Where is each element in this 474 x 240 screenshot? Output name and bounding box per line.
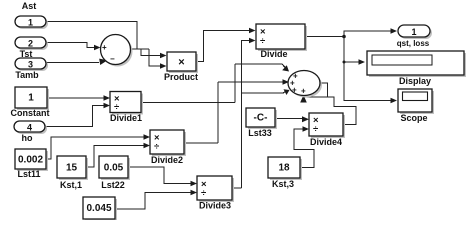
arrowhead into Divide2 x xyxy=(144,134,151,140)
svg-text:Divide4: Divide4 xyxy=(310,137,342,147)
svg-text:+: + xyxy=(301,87,306,96)
wire Lst33 to Divide4 x input xyxy=(275,118,303,120)
svg-text:-C-: -C- xyxy=(254,113,268,124)
arrowhead into Divide divide xyxy=(249,38,256,44)
constant Lst22 0.05 xyxy=(99,156,130,190)
divide3 block xyxy=(197,176,234,211)
wire Lst11 to Divide2 x input xyxy=(46,137,144,159)
svg-text:15: 15 xyxy=(66,163,78,174)
wire riser x218 xyxy=(217,82,219,143)
svg-text:÷: ÷ xyxy=(313,124,318,135)
arrowhead into sum1 minus xyxy=(99,59,107,65)
divide1 block xyxy=(110,92,143,124)
wire down to display and scope xyxy=(344,37,391,101)
constant Kst,3 18 xyxy=(268,157,302,189)
wire ho to Divide1 divide input xyxy=(45,106,104,127)
svg-text:2: 2 xyxy=(28,39,33,49)
arrowhead into sum2 left xyxy=(283,79,290,85)
svg-text:Kst,1: Kst,1 xyxy=(60,180,82,190)
svg-text:Divide3: Divide3 xyxy=(199,201,231,211)
arrowhead into Divide1 x xyxy=(104,95,111,101)
svg-text:18: 18 xyxy=(278,163,290,174)
wire Kst3 to Divide4 divide input xyxy=(294,129,314,168)
svg-text:Divide1: Divide1 xyxy=(110,113,142,123)
wire Tst from inport2 into sum plus input xyxy=(46,43,96,48)
svg-text:qst, loss: qst, loss xyxy=(397,39,430,48)
svg-text:1: 1 xyxy=(28,18,33,28)
constant Lst11 0.002 xyxy=(15,149,48,179)
constant Lst33 -C- xyxy=(246,108,277,138)
svg-text:−: − xyxy=(110,55,115,64)
svg-text:+: + xyxy=(102,43,107,52)
wire into sum2 top-left input xyxy=(235,64,287,70)
arrowhead into Display xyxy=(359,59,366,65)
wire branch to Product input 2 xyxy=(149,49,160,66)
svg-text:Product: Product xyxy=(164,72,198,82)
svg-text:÷: ÷ xyxy=(154,142,159,153)
arrowhead into Product input1 xyxy=(160,53,167,59)
sum block circle xyxy=(101,35,133,67)
svg-text:×: × xyxy=(178,57,184,69)
arrowhead into sum2 lower-left xyxy=(284,89,290,95)
wire Constant1 to Divide1 x input xyxy=(47,97,104,99)
scope block xyxy=(398,89,434,123)
svg-text:1: 1 xyxy=(411,27,416,37)
wire riser x235 xyxy=(234,64,236,103)
arrowhead into Product input2 xyxy=(160,63,167,69)
arrowhead into outport xyxy=(391,28,398,34)
wire branch to Product input 1 xyxy=(141,49,160,56)
outport 1 qst loss xyxy=(397,25,432,48)
constant 0.045 xyxy=(83,197,117,221)
wire 0.045 to Divide3 divide input xyxy=(115,193,191,210)
wire Product output up to Divide x input xyxy=(196,31,249,62)
constant Kst,1 15 xyxy=(57,156,88,190)
svg-text:+: + xyxy=(292,86,297,95)
svg-text:Display: Display xyxy=(399,76,431,86)
wire Divide2 output xyxy=(184,142,218,144)
wire Divide1 output xyxy=(141,102,235,104)
arrowhead into Divide3 x xyxy=(191,181,198,187)
svg-text:Ast: Ast xyxy=(22,1,37,11)
wire Divide output xyxy=(305,36,344,38)
svg-text:Lst22: Lst22 xyxy=(101,180,125,190)
svg-text:Divide2: Divide2 xyxy=(151,155,183,165)
arrowhead into Divide4 divide xyxy=(303,126,310,132)
svg-text:Lst11: Lst11 xyxy=(17,169,40,179)
wire into sum2 lower-left input xyxy=(242,91,288,94)
arrowhead into Scope xyxy=(391,98,398,104)
svg-text:Tamb: Tamb xyxy=(15,70,39,80)
product block xyxy=(164,52,198,82)
svg-text:3: 3 xyxy=(28,60,33,70)
arrowhead into Divide2 divide xyxy=(144,143,151,149)
arrowhead into sum1 plus xyxy=(94,45,101,51)
svg-text:Kst,3: Kst,3 xyxy=(272,179,294,189)
wire Ast from inport1 down to sum output line xyxy=(46,22,137,50)
svg-text:0.045: 0.045 xyxy=(86,203,111,214)
junction dot at divide output branch xyxy=(342,35,346,39)
svg-text:0.05: 0.05 xyxy=(104,163,124,174)
arrowhead into sum2 top-left xyxy=(282,65,289,71)
svg-text:÷: ÷ xyxy=(201,188,206,199)
svg-text:Divide: Divide xyxy=(260,49,287,59)
inport 3 Tamb xyxy=(15,58,48,80)
svg-text:Constant: Constant xyxy=(11,108,50,118)
inport 4 ho xyxy=(14,121,47,143)
inport 1 Ast xyxy=(15,1,48,29)
wire Lst22 to Divide3 x input xyxy=(128,167,191,184)
svg-text:ho: ho xyxy=(22,133,33,143)
display block xyxy=(367,51,466,86)
wire sum1 output xyxy=(131,48,150,50)
constant 1 block xyxy=(11,87,50,118)
inport 2 Tst xyxy=(15,37,48,59)
svg-text:0.002: 0.002 xyxy=(18,155,43,166)
svg-text:Scope: Scope xyxy=(400,113,427,123)
wire Kst1 to Divide2 divide input xyxy=(86,146,144,168)
svg-text:÷: ÷ xyxy=(114,102,119,113)
svg-text:4: 4 xyxy=(27,123,32,133)
wire into sum2 left input xyxy=(218,81,284,83)
divide block xyxy=(256,24,307,59)
svg-text:1: 1 xyxy=(28,93,34,104)
sum2 ellipse add block xyxy=(288,71,322,98)
divide4 block xyxy=(309,113,345,147)
wire up to outport qst loss xyxy=(344,31,391,37)
wire sum2 right loop xyxy=(320,83,328,97)
wire riser to Divide divide input xyxy=(242,41,250,189)
svg-text:÷: ÷ xyxy=(260,36,265,47)
svg-text:Lst33: Lst33 xyxy=(248,128,272,138)
wire Tamb from inport3 into sum minus input xyxy=(46,62,99,64)
arrowhead into Divide1 divide xyxy=(104,103,111,109)
junction dot at display branch xyxy=(343,61,346,64)
arrowhead into Divide3 divide xyxy=(191,190,198,196)
divide2 block xyxy=(150,130,186,165)
arrowhead into Divide x xyxy=(249,28,256,34)
arrowhead into Divide4 x xyxy=(302,116,309,122)
arrowhead into sum2 bottom xyxy=(300,95,307,103)
wire Divide3 output stub xyxy=(232,187,242,189)
wire branch into Display xyxy=(344,61,359,63)
wire Divide4 output feedback into sum2 bottom xyxy=(303,97,356,125)
